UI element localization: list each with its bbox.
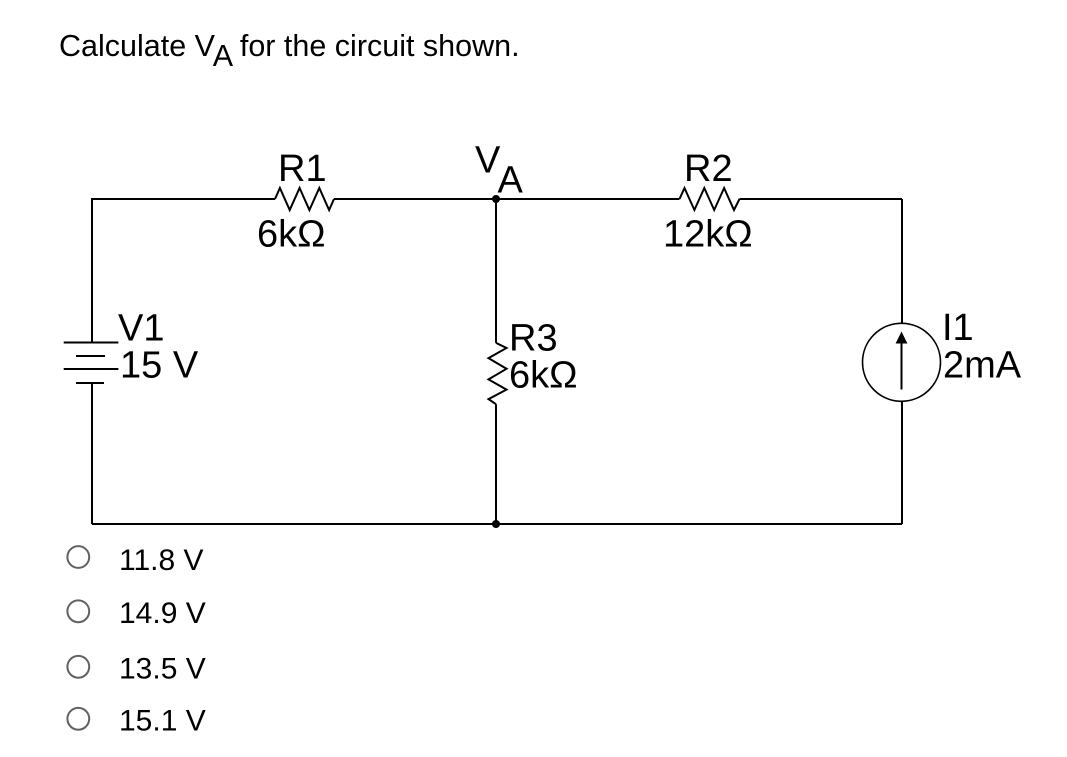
current source I1 circle xyxy=(863,323,941,401)
svg-text:Calculate VA for the circuit s: Calculate VA for the circuit shown. xyxy=(59,29,520,73)
wire top-left segment xyxy=(92,198,275,200)
wire top-middle segment xyxy=(334,198,680,200)
svg-text:12kΩ: 12kΩ xyxy=(663,214,753,256)
battery V1 xyxy=(64,343,119,384)
current source I1 arrow xyxy=(901,342,903,390)
node A junction dot top xyxy=(492,195,500,203)
svg-text:R3: R3 xyxy=(509,318,558,360)
wire right upper xyxy=(901,199,903,323)
wire bottom xyxy=(92,523,902,525)
radio option 2 xyxy=(67,600,89,622)
svg-text:R1: R1 xyxy=(278,148,327,190)
svg-text:V1: V1 xyxy=(118,308,164,350)
svg-text:13.5 V: 13.5 V xyxy=(119,652,206,685)
svg-text:15.1 V: 15.1 V xyxy=(119,705,206,738)
svg-text:14.9 V: 14.9 V xyxy=(119,597,206,630)
resistor R1 xyxy=(275,188,334,210)
svg-text:I1: I1 xyxy=(942,307,974,349)
radio option 4 xyxy=(67,708,89,730)
bottom junction dot xyxy=(492,520,500,528)
svg-text:VA: VA xyxy=(475,140,524,202)
wire middle lower xyxy=(495,404,497,524)
svg-text:R2: R2 xyxy=(684,148,733,190)
svg-text:2mA: 2mA xyxy=(943,345,1022,387)
wire middle upper xyxy=(495,199,497,343)
resistor R2 xyxy=(680,188,740,210)
svg-text:15 V: 15 V xyxy=(120,345,199,387)
svg-text:11.8 V: 11.8 V xyxy=(119,544,204,577)
resistor R3 xyxy=(489,343,507,404)
wire left lower xyxy=(91,383,93,524)
radio option 3 xyxy=(67,656,89,678)
svg-text:6kΩ: 6kΩ xyxy=(257,214,326,256)
svg-text:6kΩ: 6kΩ xyxy=(509,355,578,397)
wire right lower xyxy=(901,401,903,524)
wire top-right segment xyxy=(740,198,903,200)
radio option 1 xyxy=(67,546,89,568)
wire left upper xyxy=(91,198,93,343)
